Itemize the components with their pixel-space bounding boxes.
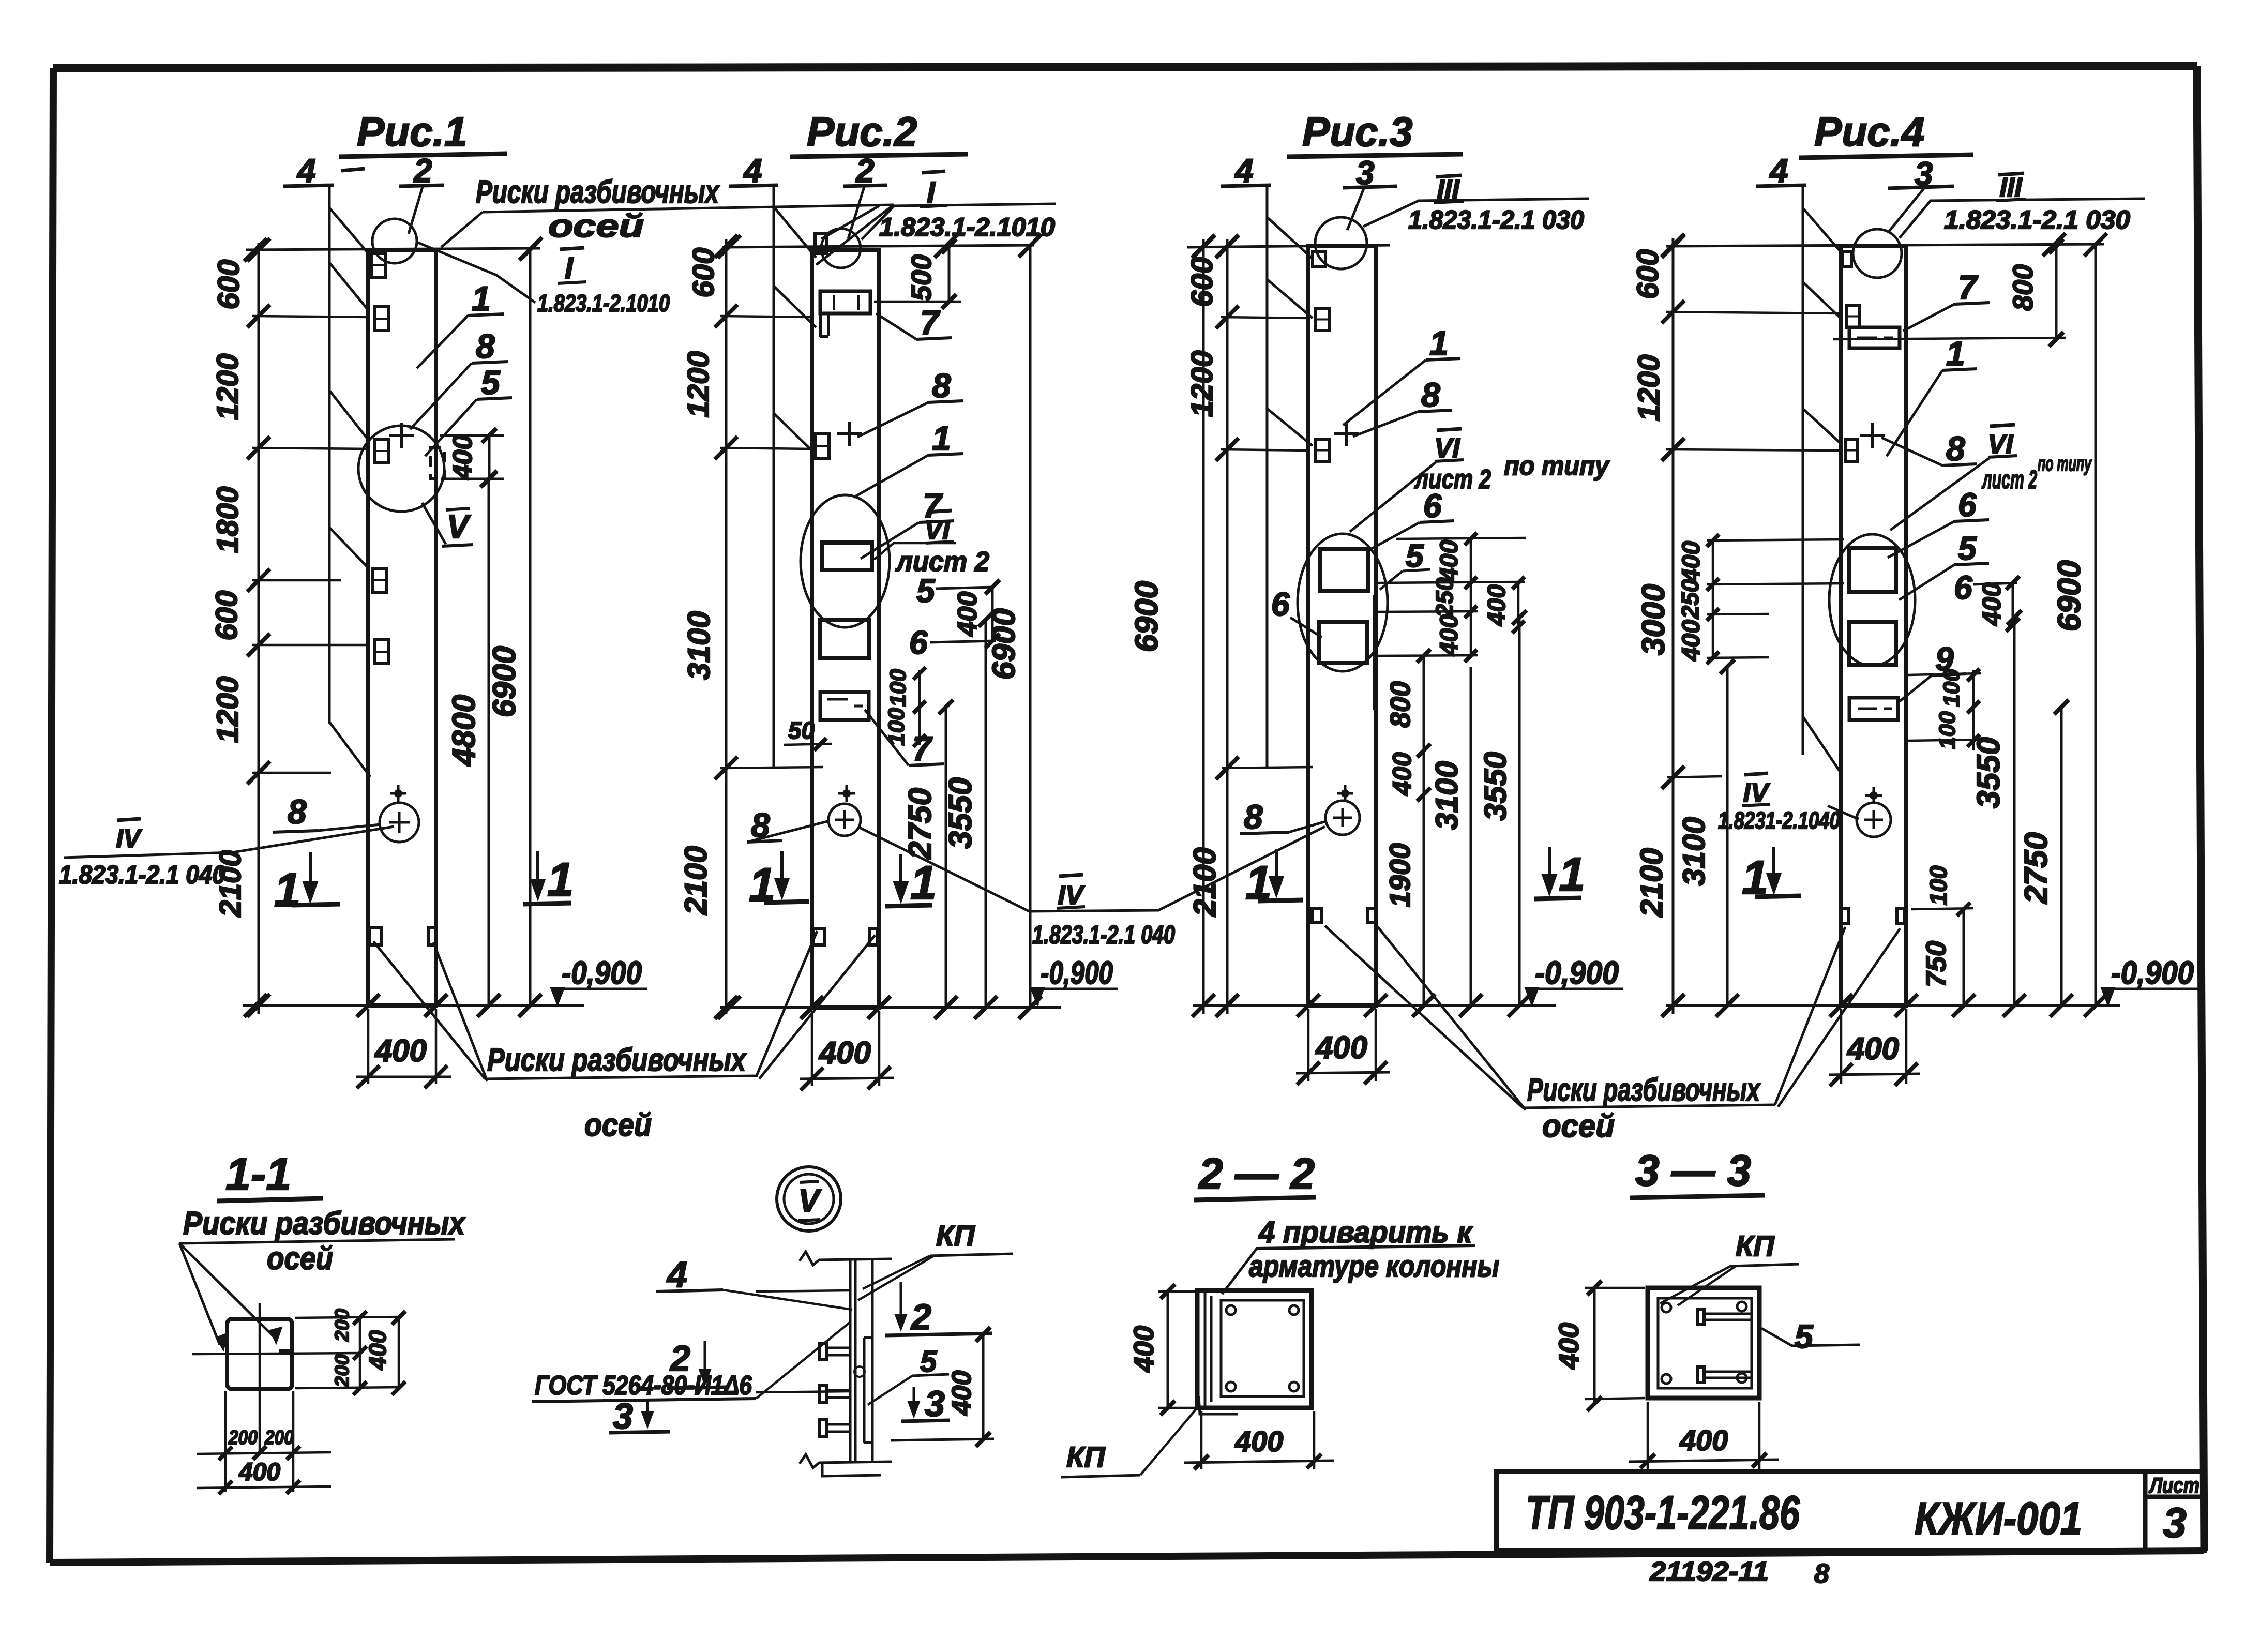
svg-text:400: 400 (364, 1330, 391, 1370)
svg-text:200: 200 (228, 1427, 258, 1449)
svg-text:IV: IV (116, 824, 142, 853)
svg-text:400: 400 (819, 1035, 871, 1070)
svg-text:2750: 2750 (2018, 832, 2054, 904)
svg-text:750: 750 (1921, 941, 1952, 987)
svg-text:5: 5 (1795, 1318, 1814, 1355)
svg-text:арматуре колонны: арматуре колонны (1249, 1250, 1499, 1283)
svg-text:Риски разбивочных: Риски разбивочных (487, 1042, 747, 1078)
svg-text:3100: 3100 (1429, 761, 1464, 830)
svg-text:1.823.1-2.1010: 1.823.1-2.1010 (879, 213, 1055, 242)
svg-text:2100: 2100 (1634, 848, 1669, 917)
svg-text:КП: КП (1736, 1229, 1775, 1262)
svg-text:8: 8 (476, 327, 495, 365)
svg-text:7: 7 (1958, 268, 1979, 306)
svg-text:1: 1 (1429, 324, 1449, 362)
svg-text:лист 2: лист 2 (1982, 465, 2037, 494)
svg-text:500: 500 (906, 254, 937, 301)
svg-text:400: 400 (1678, 541, 1705, 583)
svg-text:5: 5 (920, 1345, 937, 1378)
svg-text:400: 400 (1436, 540, 1463, 582)
svg-text:100: 100 (884, 708, 909, 746)
svg-text:600: 600 (1631, 249, 1665, 299)
svg-text:400: 400 (1388, 752, 1417, 796)
svg-text:осей: осей (584, 1107, 652, 1143)
svg-text:осей: осей (1542, 1108, 1615, 1144)
svg-text:8: 8 (1421, 376, 1440, 414)
svg-text:Лист: Лист (2149, 1473, 2199, 1497)
svg-text:КЖИ-001: КЖИ-001 (1915, 1493, 2082, 1544)
svg-text:8: 8 (932, 366, 951, 404)
svg-text:Рис.4: Рис.4 (1814, 109, 1924, 155)
svg-text:КП: КП (1066, 1440, 1106, 1473)
svg-text:осей: осей (548, 208, 644, 244)
svg-text:1800: 1800 (211, 486, 245, 553)
svg-text:1200: 1200 (682, 351, 715, 417)
svg-text:ТП 903-1-221.86: ТП 903-1-221.86 (1526, 1486, 1800, 1539)
svg-text:5: 5 (481, 363, 501, 401)
svg-text:6: 6 (1958, 486, 1977, 523)
svg-text:400: 400 (1847, 1031, 1899, 1066)
svg-text:6: 6 (909, 624, 928, 661)
svg-text:I: I (565, 251, 574, 285)
svg-text:400: 400 (1554, 1323, 1585, 1370)
svg-text:3100: 3100 (1677, 817, 1711, 885)
svg-text:1-1: 1-1 (225, 1148, 291, 1199)
svg-text:600: 600 (687, 248, 720, 298)
svg-text:400: 400 (1436, 614, 1463, 656)
svg-text:по типу: по типу (2038, 453, 2092, 475)
svg-text:3550: 3550 (1971, 737, 2007, 808)
svg-text:3: 3 (2163, 1499, 2187, 1546)
svg-text:600: 600 (210, 591, 244, 641)
svg-text:400: 400 (947, 1371, 977, 1416)
svg-text:4: 4 (666, 1254, 687, 1295)
svg-text:по типу: по типу (1504, 451, 1610, 481)
svg-text:21192-11: 21192-11 (1649, 1557, 1769, 1587)
svg-text:2750: 2750 (902, 788, 938, 860)
svg-text:Риски разбивочных: Риски разбивочных (476, 174, 720, 210)
svg-text:1200: 1200 (211, 353, 245, 420)
svg-text:400: 400 (1679, 1424, 1728, 1456)
svg-text:600: 600 (212, 260, 246, 310)
svg-text:400: 400 (1678, 620, 1705, 662)
svg-text:Рис.2: Рис.2 (807, 109, 917, 155)
svg-text:3 — 3: 3 — 3 (1635, 1146, 1751, 1195)
svg-text:1.8231-2.1040: 1.8231-2.1040 (1718, 807, 1840, 834)
svg-text:800: 800 (1385, 681, 1416, 728)
svg-text:6900: 6900 (986, 608, 1022, 680)
svg-text:400: 400 (1234, 1425, 1283, 1458)
svg-text:лист 2: лист 2 (895, 546, 989, 577)
svg-text:3000: 3000 (1636, 584, 1671, 655)
svg-text:6: 6 (1954, 569, 1972, 606)
svg-text:400: 400 (1977, 582, 2006, 626)
svg-text:1200: 1200 (211, 676, 245, 743)
svg-text:6900: 6900 (1129, 581, 1165, 652)
svg-text:100: 100 (1925, 865, 1952, 905)
svg-text:1: 1 (274, 864, 300, 917)
svg-text:1900: 1900 (1383, 843, 1416, 908)
svg-text:1.823.1-2.1010: 1.823.1-2.1010 (537, 290, 670, 317)
svg-text:4: 4 (743, 152, 762, 189)
svg-text:1: 1 (1946, 334, 1965, 372)
svg-text:1: 1 (472, 279, 491, 318)
svg-text:Рис.3: Рис.3 (1302, 109, 1412, 155)
svg-text:V: V (798, 1183, 822, 1219)
svg-text:1.823.1-2.1 030: 1.823.1-2.1 030 (1408, 205, 1584, 234)
svg-text:1: 1 (932, 419, 951, 457)
svg-text:800: 800 (2008, 264, 2039, 311)
svg-text:200: 200 (332, 1354, 353, 1387)
svg-text:5: 5 (1958, 530, 1977, 567)
svg-text:5: 5 (916, 572, 936, 609)
svg-text:3550: 3550 (1478, 752, 1513, 820)
svg-text:Рис.1: Рис.1 (357, 109, 467, 155)
svg-text:8: 8 (1946, 429, 1965, 468)
svg-text:6900: 6900 (487, 646, 522, 717)
svg-text:4800: 4800 (446, 695, 482, 767)
svg-text:Риски разбивочных: Риски разбивочных (183, 1206, 466, 1241)
svg-text:1.823.1-2.1 040: 1.823.1-2.1 040 (1032, 920, 1175, 949)
svg-text:4: 4 (1769, 152, 1788, 189)
svg-text:200: 200 (332, 1309, 353, 1342)
svg-text:3: 3 (613, 1396, 633, 1436)
svg-text:6: 6 (1271, 585, 1290, 623)
svg-text:4 приварить к: 4 приварить к (1258, 1215, 1473, 1249)
svg-text:-0,900: -0,900 (562, 955, 642, 991)
svg-text:осей: осей (267, 1241, 333, 1276)
svg-text:3: 3 (925, 1384, 945, 1424)
svg-text:4: 4 (296, 152, 316, 189)
svg-text:ГОСТ 5264-80-И1Δ6: ГОСТ 5264-80-И1Δ6 (535, 1371, 752, 1401)
svg-text:1200: 1200 (1632, 354, 1666, 421)
svg-text:400: 400 (953, 592, 983, 637)
svg-text:-0,900: -0,900 (2111, 955, 2194, 991)
svg-text:7: 7 (920, 303, 941, 341)
svg-text:8: 8 (288, 792, 307, 831)
svg-text:3100: 3100 (682, 611, 716, 680)
svg-text:2 — 2: 2 — 2 (1198, 1149, 1315, 1198)
svg-text:-0,900: -0,900 (1535, 955, 1619, 991)
svg-text:250: 250 (1677, 579, 1704, 619)
svg-text:2: 2 (910, 1297, 931, 1337)
svg-text:50: 50 (788, 717, 815, 744)
svg-text:100: 100 (885, 669, 911, 707)
svg-text:2: 2 (855, 152, 875, 189)
svg-text:100: 100 (1935, 711, 1960, 749)
svg-text:-0,900: -0,900 (1041, 955, 1113, 991)
svg-text:400: 400 (1128, 1326, 1159, 1373)
svg-text:6: 6 (1423, 487, 1442, 524)
svg-text:1.823.1-2.1 040: 1.823.1-2.1 040 (59, 860, 225, 889)
svg-text:1: 1 (547, 853, 574, 906)
svg-text:V: V (447, 508, 472, 545)
svg-text:2100: 2100 (679, 846, 713, 915)
svg-text:3550: 3550 (943, 777, 978, 849)
svg-text:КП: КП (936, 1219, 975, 1252)
svg-text:Риски разбивочных: Риски разбивочных (1527, 1072, 1761, 1108)
svg-text:400: 400 (1483, 584, 1511, 626)
svg-text:400: 400 (448, 435, 478, 480)
svg-text:1.823.1-2.1 030: 1.823.1-2.1 030 (1944, 205, 2130, 234)
svg-text:8: 8 (1244, 798, 1263, 836)
svg-text:200: 200 (264, 1427, 294, 1449)
svg-text:8: 8 (1814, 1559, 1829, 1589)
svg-text:1: 1 (1559, 848, 1585, 901)
svg-text:400: 400 (238, 1459, 280, 1486)
svg-text:400: 400 (1315, 1030, 1367, 1065)
svg-text:400: 400 (374, 1033, 427, 1068)
svg-text:6900: 6900 (2052, 560, 2087, 632)
svg-text:4: 4 (1234, 152, 1254, 189)
